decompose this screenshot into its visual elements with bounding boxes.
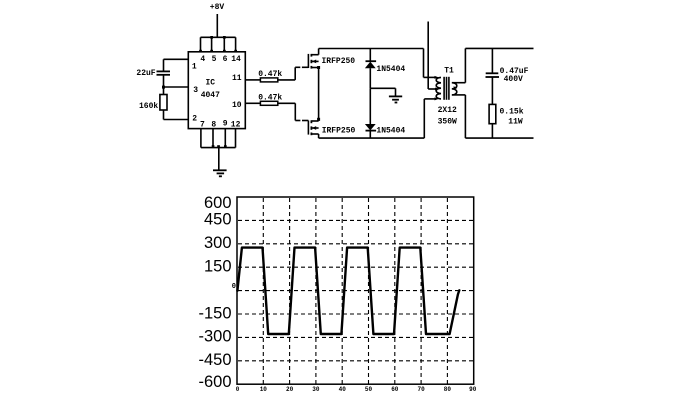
svg-text:-150: -150	[198, 304, 231, 322]
label IRFP250 Q2	[322, 127, 356, 136]
svg-text:-600: -600	[198, 373, 231, 391]
svg-text:400V: 400V	[504, 75, 523, 84]
wire cap to junction	[163, 75, 165, 87]
svg-text:350W: 350W	[438, 118, 457, 127]
node dot Q1 source	[317, 66, 320, 69]
svg-text:-300: -300	[198, 328, 231, 346]
junction dots on top bus	[199, 36, 237, 53]
svg-text:300: 300	[204, 234, 232, 252]
resistor R2 160k	[160, 95, 167, 111]
svg-text:11: 11	[232, 74, 242, 83]
svg-text:1: 1	[192, 62, 197, 71]
svg-text:1N5404: 1N5404	[376, 65, 405, 74]
label 22uF	[136, 69, 155, 78]
svg-text:T1: T1	[444, 67, 454, 76]
label IRFP250 Q1	[321, 57, 355, 66]
svg-text:450: 450	[204, 211, 232, 229]
wire bottom rail to primary bottom tap	[424, 99, 436, 138]
pin 11	[232, 74, 242, 83]
svg-text:0: 0	[232, 283, 236, 291]
svg-text:160k: 160k	[139, 102, 158, 111]
svg-text:2: 2	[192, 114, 197, 123]
wire center tap to ground	[370, 88, 395, 96]
label T1	[444, 67, 454, 76]
diode D1 1N5404	[365, 49, 376, 89]
wire R3 to gate Q1	[278, 67, 309, 80]
waveform trace	[237, 248, 459, 334]
pin 12	[231, 121, 241, 130]
transformer T1 secondary winding	[452, 83, 457, 95]
svg-text:40: 40	[339, 386, 347, 393]
svg-text:6: 6	[223, 55, 228, 64]
label 1N5404 D1	[376, 65, 405, 74]
wire top bus joining pins 4 5 6 14	[201, 37, 236, 52]
y label 450	[204, 211, 232, 229]
wire R4 to gate Q2	[278, 103, 309, 120]
node dot Q2 drain	[317, 118, 320, 121]
wire pin 3	[164, 86, 189, 88]
pin 9	[223, 120, 228, 129]
wire bottom bus pins 7 8 9 12	[201, 129, 236, 148]
pin 4	[200, 55, 205, 64]
y label 300	[204, 234, 232, 252]
svg-text:3: 3	[193, 86, 198, 95]
svg-text:2X12: 2X12	[438, 106, 457, 115]
y label -600	[198, 373, 231, 391]
wire Q1 source to Q2 drain	[318, 68, 320, 121]
svg-text:90: 90	[469, 386, 477, 393]
svg-text:IC: IC	[205, 79, 215, 88]
wire resistor to bottom rail	[491, 124, 493, 138]
svg-text:IRFP250: IRFP250	[321, 57, 355, 66]
wire resistor to pin 2	[164, 110, 189, 120]
svg-text:10: 10	[260, 386, 268, 393]
svg-text:30: 30	[312, 386, 320, 393]
wire pin 1 to capacitor	[164, 59, 189, 71]
svg-text:+8V: +8V	[210, 3, 225, 12]
resistor R5 0.15k	[489, 104, 496, 123]
svg-text:22uF: 22uF	[136, 69, 155, 78]
wire to ground	[218, 148, 220, 171]
svg-text:70: 70	[417, 386, 425, 393]
pin 14	[231, 55, 241, 64]
chart frame	[237, 197, 474, 384]
svg-text:5: 5	[212, 55, 217, 64]
wire junction to resistor	[163, 87, 165, 95]
y label -450	[198, 351, 231, 369]
label 1N5404 D2	[376, 127, 405, 136]
label 350W	[438, 118, 457, 127]
wire output branch top	[491, 48, 493, 72]
transistor Q1 IRFP250	[308, 49, 318, 69]
wire +8V feed to center tap	[428, 22, 437, 90]
wire pin 10	[245, 102, 260, 104]
y label -150	[198, 304, 231, 322]
svg-text:0.47k: 0.47k	[258, 93, 282, 102]
wire bottom rail	[319, 137, 425, 139]
svg-text:0.15k: 0.15k	[499, 107, 523, 116]
y label 150	[204, 258, 232, 276]
wire output bottom rail	[465, 137, 533, 139]
transformer T1 primary winding	[436, 77, 441, 99]
svg-text:IRFP250: IRFP250	[322, 127, 356, 136]
svg-text:600: 600	[204, 194, 232, 212]
label 0.47k R4	[258, 93, 282, 102]
chart horizontal gridlines	[238, 220, 473, 360]
wire secondary bottom to output rail	[452, 95, 465, 138]
label 2X12	[438, 106, 457, 115]
transistor Q2 IRFP250	[308, 120, 318, 138]
pin 10	[232, 101, 242, 110]
y label -300	[198, 328, 231, 346]
svg-text:14: 14	[231, 55, 241, 64]
svg-text:9: 9	[223, 120, 228, 129]
node junction pin3	[162, 86, 165, 89]
pin 5	[212, 55, 217, 64]
ground IC	[213, 170, 227, 176]
op-amp U1 IC 4047 body	[188, 52, 245, 129]
resistor R4 0.47k	[260, 101, 277, 105]
svg-text:10: 10	[232, 101, 242, 110]
svg-text:1N5404: 1N5404	[376, 127, 405, 136]
ground mid	[389, 96, 402, 102]
svg-text:4047: 4047	[201, 91, 220, 100]
pin 2	[192, 114, 197, 123]
arrowhead secondary	[454, 86, 458, 89]
IC name label	[201, 79, 220, 101]
svg-text:7: 7	[200, 121, 205, 130]
resistor R3 0.47k	[260, 78, 277, 82]
svg-text:11W: 11W	[508, 118, 523, 127]
svg-text:0: 0	[236, 386, 240, 393]
pin 3	[193, 86, 198, 95]
wire output top rail	[465, 47, 533, 49]
svg-text:80: 80	[444, 386, 452, 393]
label 0.47k R3	[258, 70, 282, 79]
chart vertical gridlines	[263, 198, 447, 384]
wire top rail to primary top tap	[424, 49, 437, 78]
svg-text:12: 12	[231, 121, 241, 130]
svg-text:-450: -450	[198, 351, 231, 369]
junction dots bottom bus	[212, 145, 227, 148]
svg-text:60: 60	[391, 386, 399, 393]
wire top rail	[319, 48, 424, 50]
label 0.47uF	[500, 67, 529, 76]
label 11W	[508, 118, 523, 127]
wire cap to resistor	[491, 77, 493, 104]
transformer T1 core	[444, 77, 449, 100]
label 400V	[504, 75, 523, 84]
power label +8V	[210, 3, 225, 12]
capacitor C2 0.47uF	[486, 73, 500, 77]
pin 1	[192, 62, 197, 71]
label 160k	[139, 102, 158, 111]
pin 8	[211, 121, 216, 130]
label 0.15k	[499, 107, 523, 116]
svg-text:150: 150	[204, 258, 232, 276]
capacitor C1 22uF	[157, 71, 171, 74]
wire secondary top to output rail	[452, 48, 465, 82]
pin 7	[200, 121, 205, 130]
pin 6	[223, 55, 228, 64]
svg-text:8: 8	[211, 121, 216, 130]
wire +8V supply vertical	[216, 14, 218, 37]
wire pin 11	[245, 79, 260, 81]
x labels	[236, 386, 477, 393]
svg-text:4: 4	[200, 55, 205, 64]
y label 600	[204, 194, 232, 212]
svg-text:50: 50	[365, 386, 373, 393]
y label 0 tiny	[232, 283, 236, 291]
svg-text:20: 20	[286, 386, 294, 393]
arrowheads primary taps	[435, 76, 440, 101]
svg-text:0.47k: 0.47k	[258, 70, 282, 79]
diode D2 1N5404	[365, 88, 376, 138]
